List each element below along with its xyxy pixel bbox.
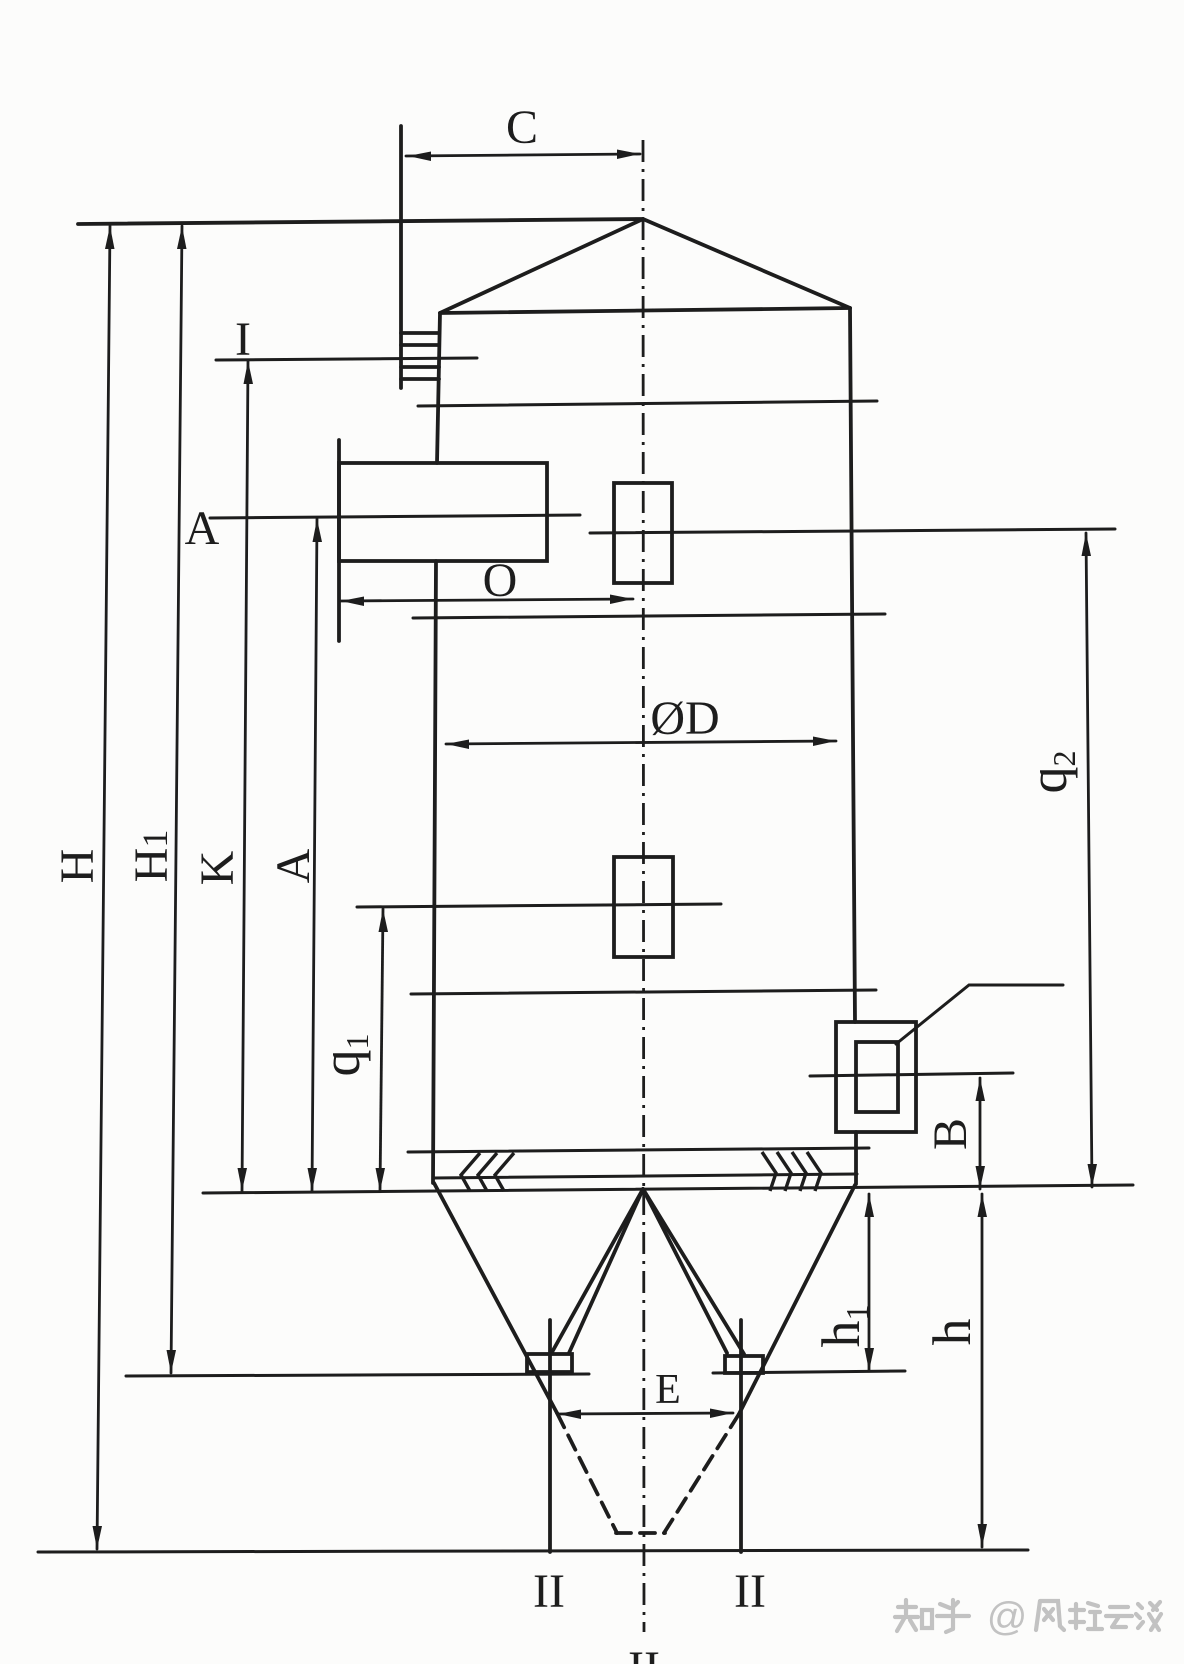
dimension line C xyxy=(406,154,640,156)
arrow q1 down xyxy=(376,1168,386,1191)
band middle line xyxy=(433,1174,857,1178)
arrow q2 down xyxy=(1088,1164,1098,1187)
cone bottom dashed xyxy=(616,1531,665,1535)
arrow A down xyxy=(308,1168,318,1191)
dimension line O xyxy=(341,599,633,601)
svg-text:h: h xyxy=(922,1319,982,1346)
arrow B down xyxy=(976,1166,986,1189)
arrow O right xyxy=(610,595,633,605)
svg-text:q2: q2 xyxy=(1018,751,1082,794)
arrow E right xyxy=(710,1409,733,1419)
dimension line H1 xyxy=(171,226,182,1373)
svg-text:H: H xyxy=(51,849,104,884)
svg-text:@: @ xyxy=(987,1595,1028,1639)
dimension line B xyxy=(979,1078,982,1189)
svg-text:A: A xyxy=(185,502,220,555)
arrow H1 down xyxy=(167,1350,177,1373)
roof left slope xyxy=(440,219,643,313)
arrow O left xyxy=(341,597,364,607)
arrow h1 up xyxy=(865,1194,875,1217)
band top line xyxy=(408,1148,869,1152)
arrow H down xyxy=(93,1526,103,1549)
arrow K down xyxy=(238,1168,248,1191)
long bottom extension line xyxy=(203,1185,1133,1193)
dimension line q1 xyxy=(380,909,383,1191)
wm char yun xyxy=(1106,1607,1132,1627)
nozzle I flange tick 1 xyxy=(401,331,439,335)
dimension line h xyxy=(981,1194,984,1547)
dimension line A xyxy=(312,519,317,1191)
ground line xyxy=(38,1550,1028,1552)
manhole leader line xyxy=(896,985,1063,1044)
svg-text:C: C xyxy=(506,101,538,154)
left chevron 3 xyxy=(495,1153,514,1191)
arrow B up xyxy=(976,1078,986,1101)
vessel left wall lower xyxy=(433,561,436,1183)
svg-text:II: II xyxy=(734,1565,766,1618)
arrow OD right xyxy=(813,737,836,747)
arrow q1 up xyxy=(379,909,389,932)
nozzle I flange tick 4 xyxy=(401,377,439,381)
inner cone line left inner xyxy=(569,1189,643,1353)
h1 level line right xyxy=(713,1371,905,1373)
level line mid nozzle xyxy=(357,904,721,907)
arrow C left xyxy=(408,152,431,162)
svg-text:E: E xyxy=(655,1367,681,1413)
wm char dan xyxy=(1136,1602,1161,1630)
dimension line K xyxy=(242,361,248,1191)
nozzle A flange face line xyxy=(337,440,341,641)
right chevron 4 xyxy=(807,1152,821,1191)
svg-text:II: II xyxy=(533,1565,565,1618)
inner cone line right inner xyxy=(643,1189,727,1353)
wm char zhi xyxy=(895,1600,932,1631)
manhole inner rect xyxy=(856,1042,898,1112)
cone right solid xyxy=(739,1185,855,1414)
svg-text:q1: q1 xyxy=(311,1034,375,1077)
arrow h up xyxy=(978,1194,988,1217)
arrow C right xyxy=(617,150,640,160)
svg-text:B: B xyxy=(924,1118,977,1150)
level line A right xyxy=(590,529,1115,533)
nozzle I flange tick 2 xyxy=(401,343,439,347)
arrow K up xyxy=(244,361,254,384)
discharge tube right wall xyxy=(739,1320,743,1552)
arrow H1 up xyxy=(177,226,187,249)
inner cone line right outer xyxy=(643,1189,744,1354)
cone left solid xyxy=(434,1183,557,1413)
discharge flange left xyxy=(527,1354,572,1372)
wm char qing xyxy=(1070,1603,1102,1629)
wm char feng xyxy=(1036,1601,1064,1630)
inner cone line left outer xyxy=(551,1189,643,1354)
level line manhole xyxy=(810,1073,1013,1076)
upper center nozzle rect xyxy=(614,483,672,583)
svg-text:h1: h1 xyxy=(811,1305,875,1348)
vessel right wall lower xyxy=(854,1132,858,1184)
discharge tube left wall xyxy=(548,1320,552,1552)
arrow h down xyxy=(978,1524,988,1547)
left chevron 1 xyxy=(461,1153,480,1191)
level line below roof xyxy=(418,401,877,406)
top extension line xyxy=(78,219,643,224)
level line I xyxy=(216,358,477,360)
centerline of vessel xyxy=(643,140,644,1632)
nozzle I flange tick 3 xyxy=(401,365,439,369)
arrow A up xyxy=(313,519,323,542)
level line below O xyxy=(413,614,885,618)
dimension line E xyxy=(558,1413,733,1414)
C extension / nozzle I face line xyxy=(399,126,403,388)
cone left dashed xyxy=(557,1413,617,1533)
right chevron 3 xyxy=(792,1152,806,1191)
wm char hu xyxy=(937,1600,969,1632)
dimension line h1 xyxy=(868,1194,871,1371)
dimension line H xyxy=(97,226,110,1549)
dimension line q2 xyxy=(1086,533,1092,1187)
arrow q2 up xyxy=(1082,533,1092,556)
cone right dashed xyxy=(664,1414,739,1533)
svg-text:A: A xyxy=(267,848,320,883)
discharge flange right xyxy=(725,1356,763,1373)
watermark zhihu xyxy=(895,1600,1161,1632)
vessel left wall upper xyxy=(437,313,440,463)
manhole outer rect xyxy=(836,1022,916,1132)
nozzle A rectangle xyxy=(339,463,547,561)
svg-text:II: II xyxy=(628,1642,660,1664)
level line lower xyxy=(411,990,876,994)
level line A left xyxy=(210,515,580,518)
mid center nozzle rect xyxy=(614,857,673,957)
svg-text:ØD: ØD xyxy=(650,692,719,745)
roof right slope xyxy=(643,219,850,308)
shoulder line xyxy=(440,308,850,313)
svg-text:K: K xyxy=(191,850,244,885)
vessel right wall upper xyxy=(850,308,855,1022)
right chevron 2 xyxy=(777,1152,791,1191)
svg-text:I: I xyxy=(235,313,251,366)
svg-text:H1: H1 xyxy=(125,830,178,883)
arrow h1 down xyxy=(865,1348,875,1371)
arrow E left xyxy=(558,1410,581,1420)
dimension line OD xyxy=(446,741,836,744)
arrow H up xyxy=(105,226,115,249)
right chevron 1 xyxy=(762,1152,776,1191)
left chevron 2 xyxy=(478,1153,497,1191)
h1 level line left xyxy=(126,1374,589,1376)
arrow OD left xyxy=(446,740,469,750)
svg-text:O: O xyxy=(483,554,518,607)
